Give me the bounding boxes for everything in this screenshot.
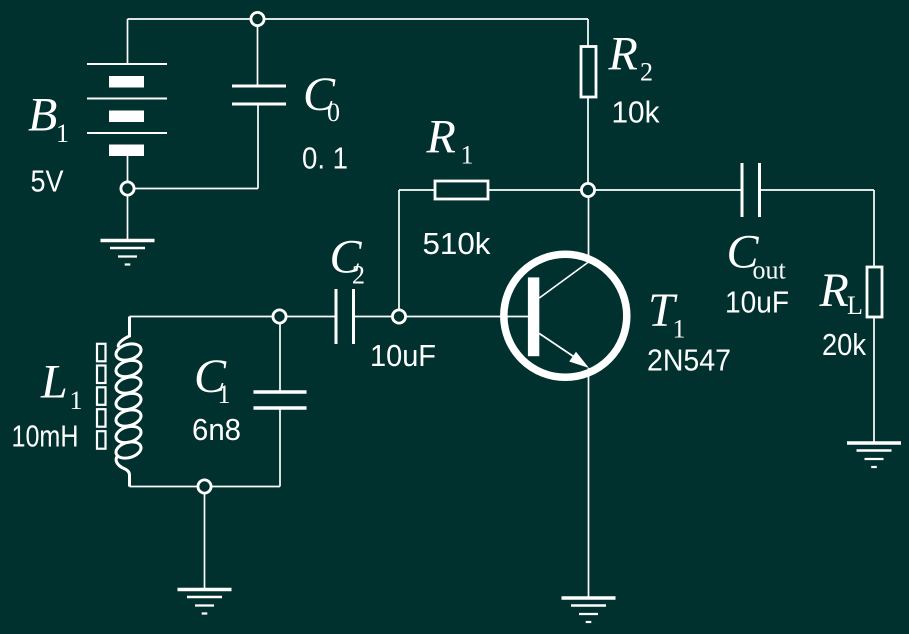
svg-text:1: 1: [461, 141, 474, 170]
wire top rail: [128, 18, 589, 20]
svg-text:5V: 5V: [31, 164, 64, 199]
wire collector lead: [588, 190, 590, 262]
label B1: [28, 89, 69, 149]
node tank bottom: [198, 480, 211, 493]
svg-text:R: R: [426, 111, 456, 164]
wire battery node to ground: [127, 189, 129, 240]
wire R1 to node: [488, 189, 588, 191]
resistor R1: [435, 181, 488, 199]
label L1: [40, 356, 83, 416]
svg-text:R: R: [608, 28, 638, 81]
label R1: [426, 111, 474, 170]
capacitor C0: [232, 86, 286, 104]
ground tank: [178, 590, 232, 614]
inductor L1 core bars: [97, 344, 106, 449]
label C1: [194, 350, 231, 409]
wire tank bottom: [130, 486, 281, 488]
label Cout: [727, 226, 787, 285]
wire C1 top lead: [279, 317, 281, 393]
ground emitter: [562, 598, 616, 622]
svg-text:R: R: [819, 264, 849, 317]
svg-text:0. 1: 0. 1: [302, 141, 348, 176]
capacitor Cout: [742, 163, 760, 217]
svg-text:L: L: [40, 356, 68, 409]
resistor R2: [581, 47, 596, 98]
svg-text:1: 1: [218, 380, 231, 409]
label R2: [608, 28, 654, 87]
inductor L1 coil: [114, 317, 143, 487]
wire battery top lead: [127, 19, 129, 64]
label C0: [303, 68, 340, 127]
wire RL top lead: [873, 190, 875, 267]
wire tank ground stem: [204, 487, 206, 589]
wire R2 top lead: [587, 19, 589, 47]
svg-text:10uF: 10uF: [370, 338, 436, 373]
svg-text:6n8: 6n8: [192, 412, 241, 447]
label RL: [819, 264, 863, 320]
wire C1 bottom lead: [279, 408, 281, 487]
svg-text:2N547: 2N547: [647, 343, 731, 378]
wire RL bottom lead: [873, 317, 875, 442]
svg-text:B: B: [28, 89, 57, 142]
wire C0 bottom lead: [257, 104, 259, 189]
svg-text:10mH: 10mH: [12, 419, 79, 454]
svg-text:1: 1: [56, 119, 69, 148]
wire R2 bottom lead: [587, 97, 589, 190]
wire battery node to C0 bottom: [128, 188, 259, 190]
wire R1 drop to base node: [398, 190, 400, 317]
wire emitter to ground: [588, 368, 590, 597]
svg-text:1: 1: [673, 315, 686, 344]
ground RL: [847, 443, 901, 467]
label C2: [330, 231, 366, 290]
node tank top: [273, 310, 286, 323]
wire tank top / base row left: [130, 316, 337, 318]
svg-text:10k: 10k: [612, 95, 660, 130]
node collector: [581, 183, 594, 196]
node base: [392, 310, 405, 323]
svg-text:out: out: [753, 256, 787, 285]
battery B1: [87, 64, 167, 156]
node top rail: [251, 12, 264, 25]
svg-text:0: 0: [327, 98, 340, 127]
svg-text:510k: 510k: [423, 226, 491, 261]
ground battery: [101, 241, 155, 265]
transistor T1: [504, 254, 627, 377]
wire C0 top lead: [257, 19, 259, 86]
svg-text:1: 1: [70, 386, 83, 415]
svg-text:L: L: [847, 291, 863, 320]
wire base row right: [354, 316, 529, 318]
capacitor C2: [336, 289, 354, 344]
label T1: [648, 284, 686, 344]
wire node to Cout: [588, 189, 742, 191]
svg-text:2: 2: [640, 58, 653, 87]
capacitor C1: [254, 392, 307, 408]
svg-text:10uF: 10uF: [725, 285, 789, 320]
wire R1 left lead: [399, 189, 435, 191]
resistor RL: [867, 267, 882, 317]
svg-text:2: 2: [352, 261, 365, 290]
node battery negative: [121, 182, 134, 195]
svg-text:20k: 20k: [822, 327, 866, 362]
wire Cout to RL: [760, 189, 875, 191]
wire battery bottom lead: [127, 156, 129, 189]
